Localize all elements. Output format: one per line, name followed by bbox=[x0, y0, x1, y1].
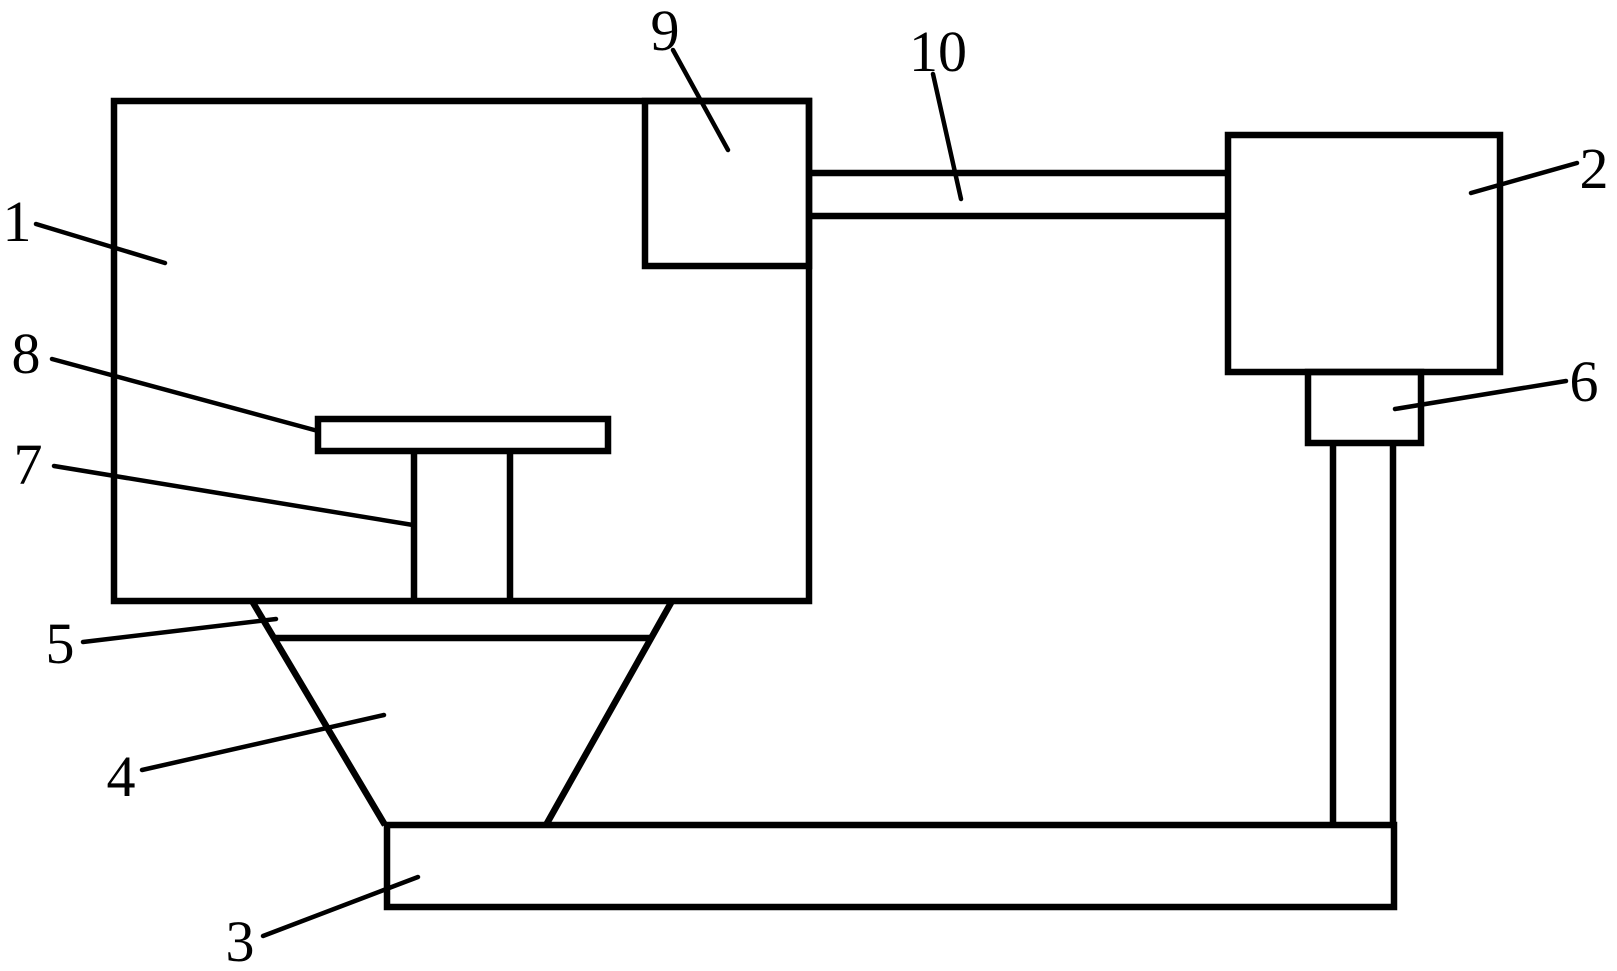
coupling box 6 bbox=[1308, 372, 1421, 443]
housing box 1 bbox=[114, 101, 809, 601]
svg-text:7: 7 bbox=[14, 432, 43, 497]
leader line 7 bbox=[54, 466, 413, 525]
leader line 2 bbox=[1471, 163, 1577, 193]
leader line 4 bbox=[142, 715, 384, 770]
svg-text:9: 9 bbox=[651, 0, 680, 63]
connector 10 upper line bbox=[809, 170, 1228, 177]
small box 9 (top-right corner of housing) bbox=[645, 101, 809, 266]
svg-text:1: 1 bbox=[3, 189, 32, 254]
svg-text:4: 4 bbox=[107, 744, 136, 809]
funnel 4 right slope bbox=[546, 601, 672, 825]
support column left line bbox=[1330, 443, 1337, 825]
svg-text:6: 6 bbox=[1570, 349, 1599, 414]
funnel 4 left slope bbox=[252, 601, 385, 825]
svg-text:8: 8 bbox=[12, 321, 41, 386]
stem 7 right line bbox=[507, 451, 514, 601]
svg-text:3: 3 bbox=[226, 909, 255, 971]
leader line 3 bbox=[263, 877, 418, 936]
stem 7 left line bbox=[411, 451, 418, 601]
motor box 2 bbox=[1228, 135, 1500, 372]
leader line 10 bbox=[933, 74, 961, 199]
connector 10 lower line bbox=[809, 213, 1228, 220]
base bar 3 bbox=[387, 825, 1394, 907]
svg-text:10: 10 bbox=[909, 19, 967, 84]
support column right line bbox=[1390, 443, 1397, 825]
leader line 9 bbox=[673, 50, 728, 150]
funnel screen line 5 bbox=[274, 635, 651, 642]
svg-text:5: 5 bbox=[46, 611, 75, 676]
leader line 6 bbox=[1395, 381, 1566, 409]
leader line 5 bbox=[83, 619, 276, 642]
leader line 8 bbox=[52, 359, 318, 431]
plate 8 bbox=[318, 419, 608, 451]
svg-text:2: 2 bbox=[1580, 136, 1609, 201]
leader line 1 bbox=[36, 224, 165, 263]
